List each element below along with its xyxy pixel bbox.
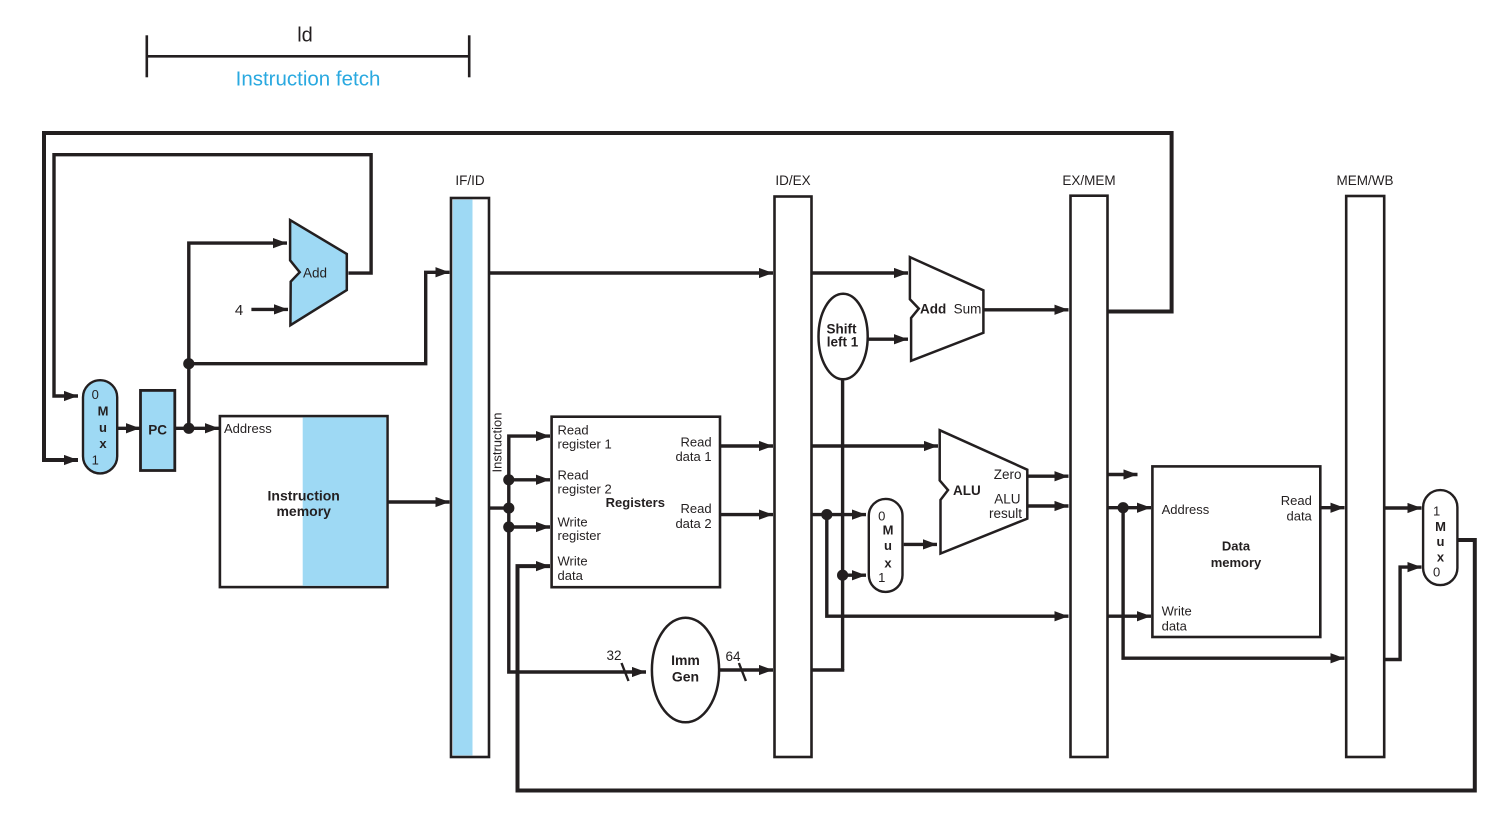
svg-text:M: M [98,404,109,419]
wire PC+4 ID/EX to Add Sum [812,271,909,274]
svg-text:Instruction fetch: Instruction fetch [236,67,381,90]
svg-text:0: 0 [878,509,885,524]
svg-text:IF/ID: IF/ID [455,173,484,188]
svg-text:Sum: Sum [954,302,982,317]
svg-text:ld: ld [297,25,313,47]
svg-text:Registers: Registers [606,495,665,510]
wire imm gen to ID/EX [719,668,773,671]
stage bracket left tick [146,35,149,77]
svg-text:1: 1 [1433,503,1440,518]
svg-text:u: u [99,420,107,435]
svg-text:4: 4 [235,302,243,319]
svg-text:left 1: left 1 [827,334,859,349]
svg-text:EX/MEM: EX/MEM [1062,173,1115,188]
svg-text:Read: Read [558,423,589,438]
wire PC+4 feedback (Add output to Mux input 0) [54,155,371,396]
alu ALU [940,430,1028,553]
svg-text:1: 1 [92,453,99,468]
wire instruction bus out of IF/ID [489,508,646,672]
svg-text:PC: PC [148,422,167,437]
svg-text:Write: Write [1162,604,1192,619]
wire instruction to read register 1 [509,436,550,508]
adder Add (PC+4) [290,220,347,325]
immediate generator Imm Gen [652,618,719,723]
svg-text:MEM/WB: MEM/WB [1337,173,1394,188]
svg-text:Imm: Imm [671,652,700,668]
wire immediate to mux input 1 [843,574,866,577]
svg-text:Write: Write [558,553,588,568]
mux MemtoReg (right) [1423,490,1457,585]
wire branch feedback loop (EX/MEM to Mux input 1) [44,133,1172,460]
svg-text:x: x [1437,550,1445,565]
wire zero stub [1108,473,1138,476]
svg-text:64: 64 [725,649,741,664]
svg-text:1: 1 [878,570,885,585]
bus slash 32 [622,663,629,681]
svg-text:Read: Read [558,468,589,483]
svg-text:Gen: Gen [672,669,699,685]
wire read data 1 ID/EX to ALU [812,444,939,447]
svg-text:M: M [1435,519,1446,534]
svg-text:data 2: data 2 [675,516,711,531]
svg-text:0: 0 [1433,565,1440,580]
pipeline register EX/MEM [1071,196,1108,757]
node alu result branch junction [1118,502,1129,513]
wire PC up to Add and IF/ID branch [189,243,287,428]
pipeline register IF/ID [451,198,489,757]
svg-text:u: u [884,538,892,553]
wire data memory read data to MEM/WB [1320,506,1344,509]
wire instruction to write register [509,525,550,528]
wire PC to instruction memory address [175,427,219,430]
node PC to IF/ID branch junction [183,358,194,369]
register PC [141,390,175,470]
svg-text:ID/EX: ID/EX [775,173,810,188]
node PC output junction [183,423,194,434]
svg-text:Address: Address [1162,502,1210,517]
pipeline register MEM/WB [1346,196,1384,757]
svg-text:register: register [558,528,602,543]
wire instruction memory to IF/ID [388,500,450,503]
wire read data 2 down to EX/MEM (store data) [827,515,1069,617]
svg-text:Instruction: Instruction [268,488,340,504]
node immediate to mux junction [837,570,848,581]
wire mux to ALU [904,543,937,546]
svg-text:x: x [99,436,107,451]
svg-text:memory: memory [1211,555,1262,570]
svg-text:Instruction: Instruction [490,413,505,473]
bus slash 64 [739,663,746,681]
svg-text:0: 0 [92,387,99,402]
svg-text:data: data [1162,619,1188,634]
wire read data MEM/WB to mux input 1 [1384,506,1421,509]
wire write-back into write data [518,540,1475,791]
wire EX/MEM to data memory address [1108,506,1152,509]
memory Data memory [1152,466,1320,637]
register file Registers [552,417,720,588]
node read data 2 branch junction [821,509,832,520]
svg-text:Zero: Zero [994,467,1022,482]
svg-text:data 1: data 1 [675,449,711,464]
svg-text:u: u [1437,534,1445,549]
wire read data 2 ID/EX to mux [812,513,867,516]
svg-text:Add: Add [920,302,946,317]
wire zero to EX/MEM [1028,475,1068,478]
svg-text:Read: Read [1281,493,1312,508]
svg-text:data: data [558,568,584,583]
wire PC+4 from IF/ID to ID/EX [489,271,773,274]
wire EX/MEM to data memory write data [1108,615,1152,618]
svg-text:Read: Read [681,434,712,449]
wire mux to PC [117,427,140,430]
wire alu result to MEM/WB [1123,508,1344,659]
adder Add Sum (branch target) [910,257,984,361]
wire instruction to read register 2 [509,478,550,481]
node instruction junction input [503,503,514,514]
svg-text:result: result [989,506,1022,521]
wire PC value to IF/ID [189,272,450,363]
svg-text:memory: memory [276,503,331,519]
svg-text:Add: Add [303,266,327,281]
wire shift left 1 to Add Sum [868,338,908,341]
stage bracket horizontal line [147,55,469,58]
svg-text:x: x [884,555,892,570]
pipeline register ID/EX [775,197,812,758]
wire read data 2 to ID/EX [720,513,773,516]
shifter Shift left 1 [819,294,868,380]
mux PCSrc (left) [83,380,117,473]
mux ALUSrc [869,499,903,592]
svg-text:32: 32 [606,648,621,663]
svg-text:ALU: ALU [953,483,981,498]
svg-text:Data: Data [1222,539,1251,554]
stage bracket right tick [468,35,471,77]
svg-text:Address: Address [224,421,272,436]
svg-text:ALU: ALU [994,492,1020,507]
node instruction junction read register 2 [503,474,514,485]
wire immediate from ID/EX [812,669,843,670]
wire alu result MEM/WB to mux input 0 [1384,567,1421,659]
instruction memory [220,416,388,587]
svg-text:data: data [1286,508,1312,523]
svg-text:register 1: register 1 [558,437,612,452]
wire 4 to Add [251,308,288,311]
wire alu result to EX/MEM [1028,504,1068,507]
wire read data 1 to ID/EX [720,444,773,447]
wire immediate up to shift left 1 [841,379,844,670]
svg-text:Read: Read [681,501,712,516]
wire Add Sum to EX/MEM [983,308,1068,311]
svg-text:register 2: register 2 [558,482,612,497]
node instruction junction write register [503,521,514,532]
svg-text:M: M [883,523,894,538]
